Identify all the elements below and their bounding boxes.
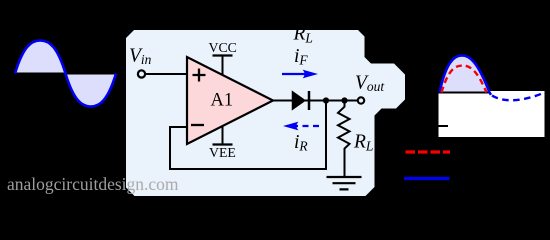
svg-text:VCC: VCC — [209, 40, 237, 55]
legend blue solid line — [404, 177, 450, 180]
input sine wave fill — [15, 41, 116, 107]
diode cathode bar — [308, 91, 311, 110]
minus sign — [191, 124, 204, 126]
output hump fill — [440, 56, 490, 93]
ground — [327, 177, 362, 189]
current arrow iF — [282, 73, 306, 75]
junction node feedback — [323, 97, 329, 103]
output baseline — [439, 92, 491, 94]
output hump red dashed curve — [442, 66, 487, 93]
output dip blue dashed curve — [492, 92, 545, 100]
op-amp U1 triangle — [187, 57, 273, 144]
diode D1 — [293, 92, 305, 109]
current arrow iR dashed — [295, 125, 319, 127]
VEE bar — [213, 143, 233, 145]
wire diode to output terminal — [305, 100, 358, 102]
VCC lead — [222, 56, 224, 75]
VCC bar — [213, 54, 233, 56]
schematic panel blob — [126, 30, 405, 196]
input terminal node — [138, 70, 145, 77]
plus sign — [193, 69, 206, 82]
input sine axis — [15, 73, 116, 75]
svg-text:analogcircuitdesign.com: analogcircuitdesign.com — [7, 174, 179, 194]
output plot white box — [439, 91, 545, 137]
wire op-amp output to diode — [273, 100, 293, 102]
junction node load — [341, 97, 347, 103]
output plot tick — [439, 125, 449, 127]
feedback wire — [170, 101, 326, 170]
resistor RL — [338, 101, 350, 178]
wire input to op-amp + — [145, 73, 187, 75]
output hump blue solid curve — [440, 56, 492, 95]
svg-text:A1: A1 — [211, 91, 234, 111]
output terminal node — [358, 97, 364, 103]
legend red dashed line — [406, 150, 451, 153]
svg-text:VEE: VEE — [209, 145, 236, 160]
VEE lead — [222, 126, 224, 145]
input sine curve — [15, 41, 116, 107]
